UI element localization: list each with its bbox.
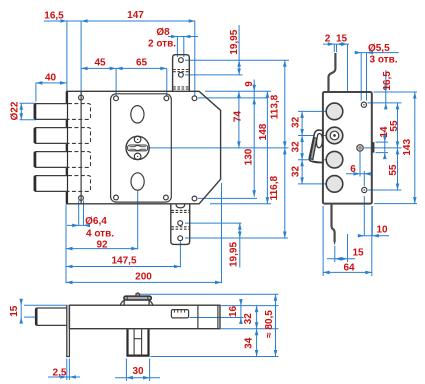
key slot inner — [129, 146, 146, 151]
side dim 32 stack — [301, 111, 303, 183]
svg-text:3 отв.: 3 отв. — [369, 55, 397, 66]
case screw bottom — [192, 196, 197, 201]
dim line 9 and 130 — [253, 80, 255, 197]
side bolt circle 3 — [326, 151, 343, 168]
arrows 14 — [383, 136, 387, 143]
ext side body top — [374, 91, 418, 93]
dim line 45 65 — [81, 67, 167, 69]
dim line 40 — [36, 82, 67, 84]
side hole middle inner — [359, 147, 361, 149]
keeper block stub — [136, 294, 139, 296]
arrows 74 — [237, 91, 241, 98]
ext side hole bottom — [368, 189, 402, 191]
svg-text:147: 147 — [127, 10, 144, 21]
side hole top — [361, 102, 366, 107]
ext bottom tab bottom — [151, 356, 279, 358]
ext side tab14 — [376, 142, 389, 153]
arrows 64 — [323, 271, 330, 275]
svg-text:74: 74 — [232, 111, 243, 123]
ext bottom body top right — [221, 305, 279, 307]
side cylinder dot — [333, 134, 336, 137]
dim line 74 — [238, 91, 240, 148]
ext bracket hole2 — [185, 74, 243, 76]
ext 2,5 verticals — [67, 359, 70, 381]
arrows 113,8 — [283, 60, 287, 66]
svg-text:45: 45 — [94, 58, 106, 69]
keeper top hole 1 — [179, 58, 184, 63]
svg-text:≈ 80,5: ≈ 80,5 — [264, 310, 275, 338]
keeper bottom hole 1 — [178, 221, 183, 226]
arrows d6,4 — [72, 224, 79, 228]
arrows 40 — [36, 81, 43, 85]
svg-text:15: 15 — [9, 305, 20, 317]
dim line d8 — [168, 36, 198, 38]
svg-text:2: 2 — [325, 34, 331, 45]
key slot outer — [128, 145, 148, 151]
svg-text:4 отв.: 4 отв. — [86, 229, 114, 240]
cylinder housing below — [128, 329, 149, 355]
svg-text:6: 6 — [350, 164, 356, 175]
side tab tip taper — [334, 241, 336, 246]
ext 15b verticals — [335, 234, 348, 262]
keeper top dashed a — [173, 70, 189, 72]
faceplate front — [80, 91, 82, 204]
bolt 3 hidden dashed — [68, 152, 91, 168]
ext bottom body top left — [24, 304, 66, 306]
keeper bottom notch — [176, 204, 185, 208]
keeper top plate — [173, 55, 190, 92]
ext keeper2 hole1 — [185, 222, 242, 224]
bottom dim 32 34 — [256, 306, 258, 357]
keeper bottom dashed a — [171, 210, 189, 212]
side dim 2 15 top line — [323, 43, 349, 45]
arrows 16 bottomview — [239, 299, 243, 306]
dim line 92 — [66, 248, 138, 250]
arrows 15 bottom — [335, 257, 342, 261]
faceplate left edge thick — [66, 91, 68, 204]
ext 10 verticals — [364, 196, 372, 236]
side dim 15 bottom — [327, 258, 355, 260]
svg-text:130: 130 — [243, 148, 254, 165]
side dim d5,5 — [358, 52, 399, 54]
bolt 2 face thick — [34, 128, 37, 143]
ext case screws top — [198, 97, 268, 99]
side cylinder circle — [326, 127, 343, 144]
dim 22 ext top — [20, 102, 37, 104]
ext side tab edges — [334, 44, 336, 52]
bolt 4 face thick — [34, 176, 37, 191]
arrows 6 — [354, 172, 361, 176]
svg-text:2 отв.: 2 отв. — [148, 39, 176, 50]
svg-text:30: 30 — [132, 366, 144, 377]
ext side bolt centers — [298, 111, 327, 183]
arrows d5,5 — [355, 51, 362, 55]
svg-text:200: 200 — [135, 272, 152, 283]
arrows 143 — [413, 92, 417, 99]
case screw top — [192, 96, 197, 101]
arrows d22 — [20, 103, 24, 110]
arrows 65 — [160, 67, 167, 71]
dim line 16,5 / 147 top — [44, 20, 195, 22]
key rect ticks — [174, 310, 184, 313]
cylinder screw bottom — [134, 153, 141, 160]
ext bottom body bottom right — [221, 328, 279, 330]
ext faceplate left — [66, 21, 68, 91]
ext plate screw right — [166, 68, 168, 95]
plate screw BR — [164, 195, 169, 200]
ext body bottom right — [210, 203, 271, 205]
arrows d8 — [171, 35, 178, 39]
side bolt circle 1 — [326, 103, 343, 120]
bolt 1 hidden dashed — [68, 104, 91, 120]
dim line 147,5 — [66, 266, 180, 268]
dim line 200 — [66, 281, 222, 283]
keeper stub nub — [137, 292, 139, 294]
side left escutcheon wedge — [309, 130, 322, 163]
arrows 30 — [126, 376, 132, 380]
faceplate hole bottom — [79, 196, 84, 201]
svg-text:32: 32 — [291, 116, 302, 128]
keeper top dashed b — [173, 87, 189, 89]
arrows 19,95 top — [237, 60, 241, 66]
bottom body — [69, 305, 220, 329]
ext faceplate down — [65, 205, 67, 284]
ext cylinder center — [150, 147, 289, 149]
svg-text:32: 32 — [243, 313, 254, 325]
ext d55 tangents — [361, 53, 366, 101]
side dim 16,5 — [385, 70, 387, 107]
plate screw TL — [114, 96, 119, 101]
side dim 14 — [384, 130, 386, 158]
side faceplate tab top — [329, 53, 336, 92]
arrows 15 bottomview — [19, 299, 23, 306]
cylinder screw bottom dot — [137, 156, 138, 157]
bottom bolt — [36, 308, 67, 325]
ext case screw top — [194, 21, 196, 96]
bottom dim 16 — [240, 300, 242, 323]
dim 22 ext bottom — [20, 119, 37, 121]
keeper top hole 2 — [179, 72, 184, 77]
ext 6 verticals — [360, 152, 364, 187]
ext case vertex down — [221, 183, 223, 283]
cover plate — [111, 94, 172, 202]
side dim 64 — [323, 271, 372, 273]
side cylinder inner ring — [330, 131, 339, 140]
svg-text:Ø8: Ø8 — [156, 27, 170, 38]
keeper block legs — [120, 300, 153, 306]
arrows 130 — [252, 190, 256, 197]
svg-text:65: 65 — [136, 58, 148, 69]
svg-text:9: 9 — [244, 81, 255, 87]
arrows 55 lower — [396, 148, 400, 155]
arrows 92 — [66, 247, 73, 251]
ext keeper2 hole2 — [185, 237, 288, 239]
bottom faceplate bar — [67, 305, 70, 357]
svg-text:15: 15 — [352, 248, 364, 259]
svg-text:Ø6,4: Ø6,4 — [85, 216, 107, 227]
ext body top right — [205, 90, 271, 92]
bolt 4 hidden dashed — [68, 176, 91, 192]
faceplate hole top — [79, 95, 84, 100]
ext side 15 right — [347, 44, 349, 91]
bolt 1 — [34, 104, 67, 120]
ext bottom bolt axis — [24, 316, 35, 318]
dim line 113,8 116,8 — [284, 60, 286, 238]
svg-text:34: 34 — [244, 337, 255, 349]
bottom dim 30 — [115, 377, 160, 379]
arrows 45 — [81, 67, 88, 71]
cylinder screw top — [134, 136, 141, 143]
side hole top dot — [363, 104, 364, 105]
bottom bolt face thick — [35, 309, 37, 326]
ext d64 tangents — [79, 201, 84, 226]
arrows 148 — [266, 91, 270, 98]
svg-text:19,95: 19,95 — [229, 242, 240, 267]
arrows 80,5 — [274, 294, 278, 301]
arrows 147,5 — [66, 265, 73, 269]
svg-text:16: 16 — [228, 306, 239, 318]
bolt 2 — [34, 128, 67, 144]
dim line d22 — [20, 103, 22, 120]
svg-text:116,8: 116,8 — [269, 176, 280, 201]
oval hole bottom — [131, 173, 144, 190]
bolt 3 face thick — [34, 152, 37, 167]
svg-text:64: 64 — [343, 263, 355, 274]
dim line 19,95 top — [238, 25, 240, 75]
ext plate screw left — [115, 68, 117, 95]
plate screw BL — [114, 195, 119, 200]
dim line 19,95 bottom — [239, 223, 241, 267]
svg-text:32: 32 — [291, 166, 302, 178]
svg-text:40: 40 — [45, 73, 57, 84]
side dim 143 — [414, 92, 416, 204]
keeper bottom hole 2 — [178, 236, 183, 241]
ext keeper top — [140, 293, 279, 295]
arrows 34 — [255, 329, 259, 336]
arrows 200 — [66, 281, 73, 285]
arrows 10 — [358, 234, 365, 238]
key rect — [171, 310, 188, 318]
ext 30 verticals — [126, 359, 149, 382]
ext keyhole down — [137, 191, 139, 250]
ext side hole mid — [364, 147, 402, 149]
ext 64 verticals — [323, 206, 372, 276]
svg-text:16,5: 16,5 — [44, 11, 64, 22]
svg-text:14: 14 — [379, 126, 390, 138]
svg-text:55: 55 — [389, 120, 400, 132]
svg-text:55: 55 — [388, 164, 399, 176]
bolt 2 hidden dashed — [68, 128, 91, 144]
ext faceplate right — [80, 21, 82, 95]
keeper bottom dashed b — [171, 227, 189, 229]
arrows 16,5 side — [384, 86, 388, 93]
keeper block ticks — [127, 296, 148, 300]
side body — [323, 92, 372, 204]
svg-text:2,5: 2,5 — [53, 368, 67, 379]
oval hole top — [131, 106, 144, 123]
housing inner slot — [134, 329, 142, 355]
side dim 6 — [346, 173, 370, 175]
bottom dim 15 — [20, 300, 22, 322]
dim line d6,4 — [67, 224, 90, 226]
bottom dim 2,5 — [48, 376, 80, 378]
ext bolt corner — [35, 83, 37, 102]
arrows 32 stack — [300, 111, 304, 118]
side dim 10 — [359, 235, 389, 237]
svg-text:16,5: 16,5 — [382, 71, 393, 91]
side right tab — [372, 142, 375, 153]
plate screw TR — [164, 96, 169, 101]
keeper block plate — [124, 296, 151, 300]
wedge inner lines — [310, 138, 317, 160]
svg-text:10: 10 — [376, 224, 388, 235]
ext bracket hole1 — [185, 59, 289, 61]
dim line 148 — [266, 91, 268, 204]
arrows 55 upper — [396, 103, 400, 110]
arrows 116,8 — [283, 148, 287, 155]
side dim 55 55 — [397, 103, 399, 190]
wedge bottom arc — [311, 161, 323, 163]
side hole middle — [357, 145, 363, 151]
svg-text:32: 32 — [291, 141, 302, 153]
ext side body bottom — [374, 203, 417, 205]
cylinder screw top dot — [137, 139, 138, 140]
svg-text:92: 92 — [96, 240, 108, 251]
svg-text:147,5: 147,5 — [111, 256, 136, 267]
ext keyrect 16 — [190, 317, 244, 319]
arrows 19,95 bottom — [238, 223, 242, 230]
svg-text:148: 148 — [258, 123, 269, 140]
svg-text:Ø5,5: Ø5,5 — [368, 43, 390, 54]
svg-text:143: 143 — [402, 139, 413, 156]
bottom body inner line — [198, 305, 218, 329]
side hole bottom dot — [364, 189, 365, 190]
arrows 2,5 — [60, 375, 67, 379]
arrows 147 — [189, 19, 196, 23]
wedge inner ring — [317, 134, 323, 148]
bottom dim 80,5 — [275, 294, 277, 356]
lock case outline — [67, 91, 221, 204]
ext case screw bottom — [198, 197, 257, 199]
svg-text:19,95: 19,95 — [229, 29, 240, 54]
arrows 16,5 top — [60, 19, 67, 23]
arrows 2 and 15 top — [328, 42, 335, 46]
ext d8 right tangent — [183, 37, 185, 58]
ext d8 left tangent — [176, 37, 178, 58]
arrows 9 — [252, 85, 256, 92]
side hole bottom — [362, 187, 367, 192]
side bolt circle 4 — [326, 176, 343, 193]
cylinder outer circle — [126, 136, 149, 159]
svg-text:Ø22: Ø22 — [10, 101, 21, 120]
bolt 4 — [34, 176, 67, 192]
side faceplate tab bottom — [332, 204, 335, 242]
bolt 1 face thick — [34, 104, 37, 119]
bolt 3 — [34, 152, 67, 168]
keeper bottom plate — [171, 204, 190, 245]
ext keeper2 center down — [179, 242, 181, 268]
arrows 32 bottomview — [255, 306, 259, 313]
svg-text:113,8: 113,8 — [270, 94, 281, 119]
ext side hole1 — [368, 102, 402, 104]
svg-text:15: 15 — [336, 34, 348, 45]
